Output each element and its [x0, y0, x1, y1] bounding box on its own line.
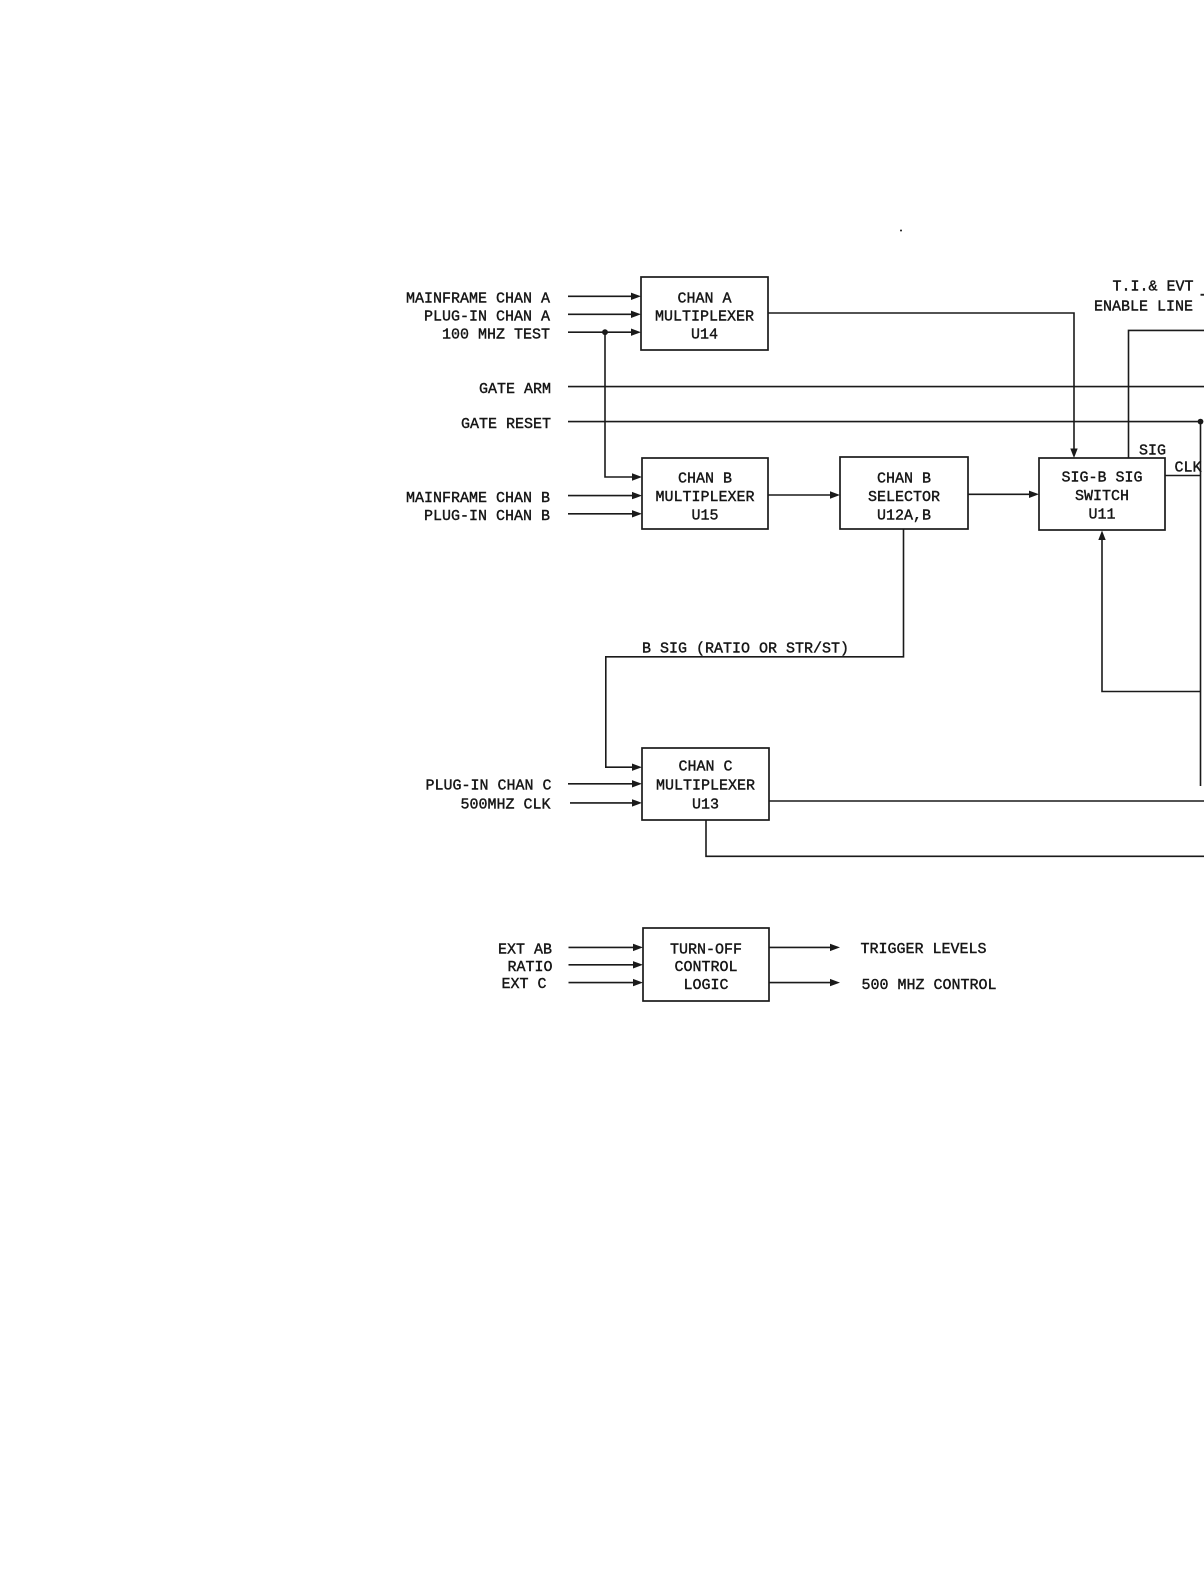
block U12A,B CHAN B SELECTOR — [840, 457, 968, 529]
label 100 MHZ TEST — [442, 326, 550, 343]
wire TRIGGER LEVELS output — [769, 944, 840, 951]
svg-text:EXT AB: EXT AB — [498, 941, 552, 958]
svg-text:PLUG-IN CHAN A: PLUG-IN CHAN A — [424, 309, 550, 326]
block U13 CHAN C MULTIPLEXER — [642, 748, 769, 820]
wire PLUG-IN CHAN A input to U14 pin 2 — [568, 311, 641, 318]
svg-text:MAINFRAME CHAN B: MAINFRAME CHAN B — [406, 490, 550, 507]
label MAINFRAME CHAN A — [406, 291, 550, 308]
junction 100 MHZ TEST node — [602, 329, 608, 335]
label GATE ARM — [479, 381, 551, 398]
label PLUG-IN CHAN C — [425, 778, 551, 795]
wire SIG input from right edge into U11 top — [1129, 330, 1204, 458]
wire U13 output to right edge — [769, 800, 1204, 802]
svg-text:SWITCH: SWITCH — [1075, 488, 1129, 505]
svg-text:T.I.& EVT: T.I.& EVT — [1113, 279, 1194, 296]
wire GATE RESET line — [568, 421, 1201, 423]
wire U12A,B output to U11 — [968, 491, 1039, 498]
wire U15 output to U12A,B — [768, 491, 840, 498]
block U14 CHAN A MULTIPLEXER — [641, 277, 768, 350]
wire PLUG-IN CHAN B input to U15 — [568, 510, 642, 517]
svg-text:U15: U15 — [691, 508, 718, 525]
svg-text:GATE ARM: GATE ARM — [479, 381, 551, 398]
svg-text:TRIGGER LEVELS: TRIGGER LEVELS — [861, 941, 987, 958]
block U15 CHAN B MULTIPLEXER — [642, 458, 768, 529]
svg-text:MULTIPLEXER: MULTIPLEXER — [656, 778, 755, 795]
label fragment cut off at right edge — [1201, 294, 1204, 296]
svg-text:SIG-B SIG: SIG-B SIG — [1061, 470, 1142, 487]
label GATE RESET — [461, 416, 551, 433]
svg-text:LOGIC: LOGIC — [683, 977, 728, 994]
svg-text:MAINFRAME CHAN A: MAINFRAME CHAN A — [406, 291, 550, 308]
svg-text:B SIG (RATIO OR STR/ST): B SIG (RATIO OR STR/ST) — [642, 641, 849, 658]
wire U13 bottom output to right edge — [706, 820, 1204, 856]
svg-text:TURN-OFF: TURN-OFF — [670, 942, 742, 959]
label 500 MHZ CONTROL — [862, 977, 997, 994]
wire 100 MHZ TEST branch down to U15 — [605, 332, 642, 481]
svg-text:U11: U11 — [1088, 507, 1115, 524]
svg-text:CHAN B: CHAN B — [678, 471, 732, 488]
speck scan artifact — [900, 230, 902, 232]
wire GATE ARM line across page — [568, 386, 1204, 388]
junction GATE RESET right node — [1198, 419, 1204, 425]
svg-text:PLUG-IN CHAN C: PLUG-IN CHAN C — [425, 778, 551, 795]
svg-text:U12A,B: U12A,B — [877, 508, 931, 525]
wire right edge vertical from GATE RESET node down — [1200, 422, 1202, 786]
label EXT AB — [498, 941, 552, 958]
label ENABLE LINE — [1094, 299, 1193, 316]
wire 500 MHZ CONTROL output — [769, 979, 840, 986]
svg-text:500MHZ CLK: 500MHZ CLK — [460, 796, 550, 813]
svg-text:GATE RESET: GATE RESET — [461, 416, 551, 433]
wire EXT C input to turn-off logic — [569, 979, 644, 986]
wire U11 CLK output to right edge vertical — [1165, 475, 1201, 477]
label PLUG-IN CHAN A — [424, 309, 550, 326]
svg-text:RATIO: RATIO — [507, 959, 552, 976]
label EXT C — [501, 976, 546, 993]
svg-text:CLK: CLK — [1175, 460, 1202, 477]
wire 100 MHZ TEST input to U14 pin 3 — [568, 329, 641, 336]
svg-text:MULTIPLEXER: MULTIPLEXER — [655, 489, 754, 506]
wire PLUG-IN CHAN C input to U13 — [568, 780, 642, 787]
label SIG — [1139, 443, 1166, 460]
label CLK — [1175, 460, 1202, 477]
label 500MHZ CLK — [460, 796, 550, 813]
svg-text:U14: U14 — [691, 327, 718, 344]
label T.I.& EVT — [1113, 279, 1194, 296]
block U11 SIG-B SIG SWITCH — [1039, 458, 1165, 530]
wire 500MHZ CLK input to U13 — [570, 799, 642, 806]
svg-text:100 MHZ TEST: 100 MHZ TEST — [442, 326, 550, 343]
svg-text:CHAN B: CHAN B — [877, 471, 931, 488]
label TRIGGER LEVELS — [861, 941, 987, 958]
svg-text:CHAN C: CHAN C — [678, 759, 732, 776]
svg-text:CONTROL: CONTROL — [674, 959, 737, 976]
svg-text:ENABLE LINE: ENABLE LINE — [1094, 299, 1193, 316]
svg-text:MULTIPLEXER: MULTIPLEXER — [655, 309, 754, 326]
svg-text:EXT C: EXT C — [501, 976, 546, 993]
label RATIO — [507, 959, 552, 976]
svg-text:500 MHZ CONTROL: 500 MHZ CONTROL — [862, 977, 997, 994]
wire RATIO input to turn-off logic — [569, 961, 644, 968]
svg-text:CHAN A: CHAN A — [677, 291, 731, 308]
svg-text:PLUG-IN CHAN B: PLUG-IN CHAN B — [424, 508, 550, 525]
svg-text:SIG: SIG — [1139, 443, 1166, 460]
wire U14 output over to U11 top (T.I. & EVT enable) — [768, 313, 1078, 458]
wire EXT AB input to turn-off logic — [569, 944, 644, 951]
wire MAINFRAME CHAN B input to U15 — [568, 492, 642, 499]
label B SIG (RATIO OR STR/ST) — [642, 641, 849, 658]
wire MAINFRAME CHAN A input to U14 pin 1 — [568, 293, 641, 300]
wire U12A,B bottom B SIG route to U13 — [606, 529, 904, 771]
svg-text:SELECTOR: SELECTOR — [868, 489, 940, 506]
svg-text:U13: U13 — [692, 797, 719, 814]
block TURN-OFF CONTROL LOGIC — [643, 928, 769, 1001]
label PLUG-IN CHAN B — [424, 508, 550, 525]
label MAINFRAME CHAN B — [406, 490, 550, 507]
wire feed from right edge vertical up into U11 bottom — [1098, 531, 1200, 692]
